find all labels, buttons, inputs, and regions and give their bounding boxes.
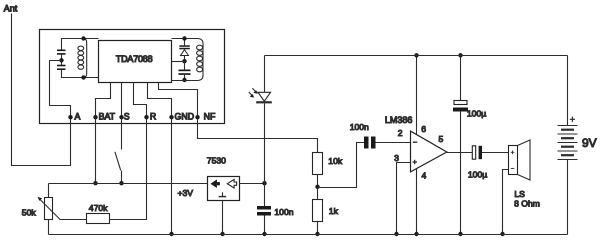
svg-text:5: 5 [439, 134, 444, 144]
capacitor C1 (tank upper) [57, 50, 66, 55]
capacitor C7 100u (output) [472, 146, 482, 159]
capacitor C2 (tank lower) [57, 65, 66, 70]
wire pin GND route [148, 83, 172, 118]
wire C5 to pin2 [376, 142, 411, 144]
svg-text:10k: 10k [328, 156, 343, 166]
wire left tank top [62, 39, 99, 51]
wire 10k to divider [317, 175, 319, 188]
IC U1 TDA7088 [99, 41, 172, 83]
wire 470k to R [110, 219, 147, 221]
wire wiper to 470k [60, 219, 87, 221]
svg-text:S: S [124, 111, 130, 121]
wire antenna lead [12, 14, 71, 166]
svg-text:LS: LS [514, 189, 525, 199]
junction varicap tap [182, 59, 186, 63]
varicap D1 [179, 39, 190, 62]
potentiometer P1 50k [38, 184, 61, 235]
resistor R4 1k [313, 200, 323, 222]
resistor R2 470k [87, 214, 110, 224]
wire BAT to +3V rail [95, 118, 97, 184]
op-amp U2 LM386 [411, 131, 447, 172]
pin R dot [144, 115, 148, 119]
wire divider to C5 [318, 143, 365, 188]
junction 1k gnd [315, 232, 319, 236]
svg-text:TDA7088: TDA7088 [116, 54, 153, 64]
capacitor C3 [179, 62, 191, 81]
wire pin4 to gnd [416, 169, 418, 235]
junction speaker gnd [500, 232, 504, 236]
bottom rail GND [49, 234, 568, 236]
svg-text:1k: 1k [329, 206, 339, 216]
wire pin BAT route [96, 83, 111, 118]
LED D2 [249, 56, 272, 184]
wire pin3 to gnd [397, 163, 411, 235]
svg-text:4: 4 [422, 171, 427, 181]
wire pin R route [134, 83, 147, 118]
wire tap to TDA [172, 61, 185, 63]
+3V rail [49, 183, 208, 185]
wire right tank bottom [172, 80, 199, 82]
wire C1 to tap [61, 55, 63, 65]
top rail +9V [265, 55, 568, 57]
capacitor C5 100n (coupling) [364, 137, 376, 149]
pin NF dot [195, 115, 199, 119]
wire left tank bottom [62, 70, 99, 78]
pin BAT dot [93, 115, 97, 119]
svg-text:A: A [75, 111, 81, 121]
svg-text:100µ: 100µ [467, 108, 486, 118]
resistor R3 10k [313, 153, 323, 175]
wire tap to pin A [50, 61, 71, 118]
wire 1k bottom [317, 222, 319, 235]
capacitor C6 100u (supply) [453, 56, 468, 235]
svg-text:R: R [150, 111, 156, 121]
junction L1 bottom [81, 75, 85, 79]
junction regulator gnd [220, 232, 224, 236]
svg-text:100n: 100n [274, 207, 293, 217]
wire R to 470k [110, 118, 147, 220]
pin GND dot [169, 115, 173, 119]
svg-text:2: 2 [398, 128, 403, 138]
wire regulator gnd [222, 201, 224, 235]
switch S1 lower stub [121, 171, 123, 184]
switch S1 lever [115, 152, 121, 171]
svg-text:7530: 7530 [207, 155, 226, 165]
junction C1-C2 tap [59, 58, 63, 62]
wire 1k top [317, 188, 319, 200]
svg-text:100n: 100n [350, 122, 369, 132]
inductor L2 [197, 39, 203, 81]
svg-text:GND: GND [175, 111, 195, 121]
module box (radio front-end) [40, 30, 225, 124]
wire pin S route [121, 83, 123, 118]
plus sign [413, 160, 418, 164]
battery plus sign [570, 117, 575, 122]
svg-text:+3V: +3V [178, 188, 194, 198]
junction pin3 gnd [394, 232, 398, 236]
svg-text:9V: 9V [582, 136, 597, 150]
svg-text:Ant: Ant [4, 4, 18, 14]
svg-text:470k: 470k [89, 203, 108, 213]
wire output pin5 [447, 152, 473, 154]
speaker LS [503, 140, 531, 235]
svg-text:LM386: LM386 [385, 115, 413, 125]
wire pin6 to +9V rail [416, 56, 418, 135]
wire NF to 10k [198, 118, 318, 153]
junction divider [315, 185, 319, 189]
wire C7 to speaker [482, 152, 509, 154]
junction right tank top [182, 36, 186, 40]
junction C4 gnd [262, 232, 266, 236]
svg-text:8 Ohm: 8 Ohm [514, 198, 540, 208]
wire pin NF route [159, 83, 198, 118]
wire right tank top [172, 38, 199, 40]
junction pin4 gnd [414, 232, 418, 236]
junction right tank bottom [182, 78, 186, 82]
junction BAT rail [93, 181, 97, 185]
junction L1 top [81, 36, 85, 40]
svg-text:6: 6 [421, 124, 426, 134]
battery BT1 9V [558, 56, 578, 235]
wire S to switch [121, 118, 123, 150]
svg-text:50k: 50k [22, 207, 37, 217]
wire GND to ground rail [171, 118, 173, 235]
junction pin6 rail [414, 53, 418, 57]
wire regulator out [240, 183, 265, 185]
svg-text:100µ: 100µ [468, 169, 487, 179]
minus sign [413, 141, 418, 143]
svg-text:3: 3 [394, 153, 399, 163]
capacitor C4 100n (supply) [257, 184, 271, 235]
svg-text:BAT: BAT [99, 111, 116, 121]
junction C6 rail [458, 53, 462, 57]
junction regulator out [262, 181, 266, 185]
svg-text:NF: NF [204, 111, 216, 121]
inductor L1 [78, 39, 87, 78]
pin A dot [68, 115, 72, 119]
regulator U3 7530 [208, 177, 240, 201]
pin S dot [119, 115, 123, 119]
junction GND rail [169, 232, 173, 236]
junction C6 gnd [458, 232, 462, 236]
junction switch rail [119, 181, 123, 185]
